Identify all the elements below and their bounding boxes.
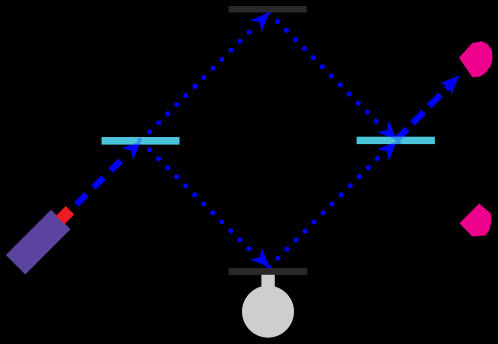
arrowhead at detector C	[440, 70, 465, 95]
arrowhead (from bottom mirror) at right splitter	[377, 136, 402, 161]
beam splitter BS1 (left, semi-transparent cyan)	[102, 137, 180, 145]
translucent beam traces on right splitter	[377, 87, 448, 161]
beam: right splitter to detector C (dashed)	[396, 86, 449, 141]
mirror M2 (bottom)	[229, 268, 308, 275]
arrowhead at bottom mirror	[250, 248, 275, 273]
bomb stem	[261, 272, 274, 294]
arrowhead at top mirror	[250, 7, 275, 32]
laser red tip	[56, 206, 74, 224]
beam: laser to left beam splitter (dashed)	[77, 155, 127, 204]
arrowhead (from top mirror) at right splitter	[377, 120, 402, 145]
beam splitter BS2 (right, semi-transparent cyan)	[357, 137, 435, 144]
bomb bulb	[242, 286, 294, 338]
beam: left splitter to top mirror (dotted, square dots)	[147, 30, 251, 134]
detector D (bottom right, pink)	[460, 204, 492, 237]
arrowhead at left beam splitter	[122, 135, 147, 160]
translucent beam traces on left splitter	[122, 135, 147, 160]
laser body	[6, 210, 71, 275]
beam: left splitter to bottom mirror (dotted)	[141, 141, 253, 253]
beam: bottom mirror to right splitter (dotted)	[269, 156, 381, 268]
beam: top mirror to right splitter (dotted)	[269, 12, 381, 125]
detector C (top right, pink)	[459, 41, 493, 77]
mirror M1 (top)	[229, 6, 307, 13]
redraw bottom mirror over stem	[229, 268, 308, 275]
